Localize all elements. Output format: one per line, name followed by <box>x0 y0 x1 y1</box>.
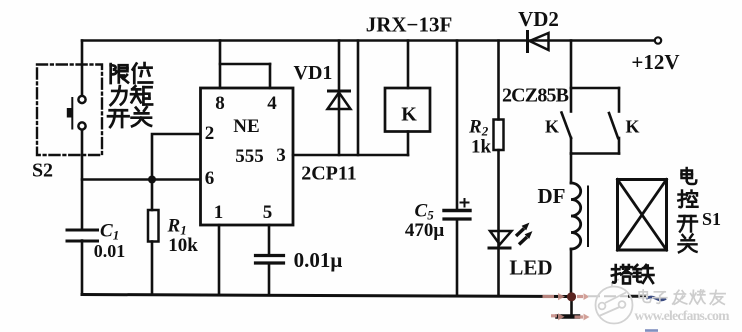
svg-text:2CZ85B: 2CZ85B <box>502 85 569 107</box>
svg-text:470μ: 470μ <box>405 220 445 241</box>
svg-text:www.elecfans.com: www.elecfans.com <box>635 308 731 323</box>
svg-text:1: 1 <box>214 202 224 223</box>
svg-text:S2: S2 <box>32 160 53 182</box>
svg-text:+12V: +12V <box>631 50 679 74</box>
svg-text:555: 555 <box>235 146 264 167</box>
svg-text:VD1: VD1 <box>294 62 333 84</box>
svg-text:2CP11: 2CP11 <box>301 163 357 185</box>
svg-text:10k: 10k <box>168 235 198 256</box>
svg-text:S1: S1 <box>702 209 721 229</box>
svg-text:3: 3 <box>276 145 286 166</box>
svg-text:5: 5 <box>263 202 273 223</box>
svg-text:DF: DF <box>538 184 566 208</box>
svg-text:K: K <box>625 117 639 137</box>
svg-text:4: 4 <box>267 93 277 114</box>
svg-text:NE: NE <box>233 116 259 137</box>
svg-text:JRX−13F: JRX−13F <box>366 13 453 37</box>
svg-text:8: 8 <box>215 93 225 114</box>
svg-text:LED: LED <box>509 256 552 280</box>
svg-text:K: K <box>545 117 559 137</box>
svg-text:6: 6 <box>205 168 215 189</box>
svg-text:1k: 1k <box>471 137 492 158</box>
svg-text:2: 2 <box>205 123 215 144</box>
svg-text:K: K <box>401 104 417 126</box>
svg-text:VD2: VD2 <box>518 7 559 31</box>
svg-text:0.01μ: 0.01μ <box>294 248 343 272</box>
svg-text:0.01: 0.01 <box>94 241 126 261</box>
